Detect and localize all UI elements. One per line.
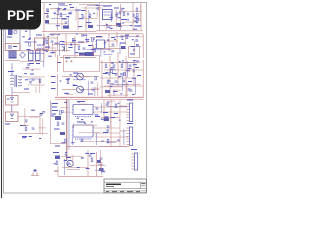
capacitor C52 bbox=[96, 108, 99, 109]
wire bbox=[110, 100, 112, 146]
capacitor C44 bbox=[130, 90, 133, 91]
wire bbox=[38, 127, 46, 129]
label text bbox=[78, 101, 80, 102]
wire bbox=[84, 89, 99, 91]
label text bbox=[52, 103, 58, 104]
svg-text:PDF: PDF bbox=[7, 8, 34, 23]
diode bbox=[107, 102, 109, 104]
label text bbox=[91, 121, 93, 122]
wire bbox=[93, 106, 128, 108]
label text bbox=[53, 152, 59, 153]
wire bbox=[87, 49, 112, 51]
diode bbox=[133, 14, 135, 16]
wire bbox=[67, 169, 80, 171]
label text bbox=[108, 80, 110, 81]
wire bbox=[124, 37, 126, 45]
capacitor C14 bbox=[116, 13, 119, 14]
label text bbox=[31, 110, 35, 111]
label text bbox=[110, 28, 113, 29]
resistor R8 bbox=[25, 127, 27, 131]
label text bbox=[39, 138, 41, 139]
wire bbox=[91, 87, 100, 89]
snubber loop bbox=[129, 47, 140, 58]
transformer T1 core bbox=[9, 51, 17, 59]
Y-capacitor CY1 bbox=[46, 9, 49, 10]
label text bbox=[88, 94, 93, 95]
label text bbox=[32, 70, 34, 71]
wire bbox=[142, 34, 144, 58]
blob cluster bbox=[105, 90, 110, 93]
wire bbox=[65, 34, 67, 44]
wire bbox=[104, 69, 143, 71]
wire bbox=[95, 141, 120, 143]
wire bbox=[97, 5, 99, 11]
node bbox=[136, 22, 138, 24]
resistor bbox=[65, 139, 67, 143]
label text bbox=[58, 8, 60, 9]
wire bbox=[62, 167, 88, 169]
wire bbox=[57, 74, 59, 96]
label text bbox=[72, 40, 76, 41]
blob cluster bbox=[97, 160, 101, 163]
wire bbox=[75, 7, 77, 21]
label text bbox=[22, 136, 27, 137]
wire bbox=[133, 60, 135, 86]
label text bbox=[47, 36, 49, 37]
blob cluster bbox=[104, 118, 109, 121]
wire bbox=[76, 76, 90, 78]
label text bbox=[118, 76, 120, 77]
label text bbox=[93, 39, 95, 40]
label text bbox=[64, 8, 67, 9]
feedback loop bbox=[64, 56, 100, 72]
label text bbox=[36, 35, 42, 36]
wire bbox=[22, 125, 28, 127]
wire bbox=[82, 7, 103, 9]
label text bbox=[51, 34, 54, 35]
IC U2 bbox=[103, 10, 113, 20]
label text bbox=[134, 17, 136, 18]
wire bbox=[120, 130, 126, 132]
wire bbox=[107, 94, 128, 96]
resistor bbox=[92, 38, 94, 42]
wire bbox=[119, 61, 138, 63]
label text bbox=[58, 4, 65, 5]
wire bbox=[119, 42, 121, 54]
label text bbox=[90, 153, 95, 154]
label text bbox=[86, 41, 89, 42]
label text bbox=[25, 79, 28, 80]
label text bbox=[25, 42, 29, 43]
label text bbox=[70, 45, 72, 46]
diode bbox=[108, 73, 110, 75]
wire bbox=[117, 52, 119, 86]
label text bbox=[127, 100, 133, 101]
label text bbox=[70, 74, 72, 75]
label text bbox=[133, 29, 137, 30]
diode bbox=[65, 154, 67, 156]
label text bbox=[96, 36, 102, 37]
diode bbox=[29, 81, 31, 83]
wire bbox=[43, 3, 45, 32]
wire bbox=[51, 17, 66, 19]
label text bbox=[93, 13, 95, 14]
U6 pin row bbox=[75, 116, 91, 118]
label text bbox=[50, 52, 54, 53]
label text bbox=[77, 122, 85, 123]
wire bbox=[57, 36, 59, 50]
diode bbox=[121, 8, 123, 10]
resistor R51 bbox=[57, 122, 59, 126]
label text bbox=[48, 56, 52, 57]
label text bbox=[25, 31, 28, 32]
label text bbox=[73, 73, 78, 74]
wire bbox=[83, 141, 94, 143]
title block bbox=[104, 179, 146, 193]
wire bbox=[129, 67, 131, 72]
label text bbox=[95, 114, 99, 115]
wire bbox=[93, 46, 95, 57]
resistor bbox=[94, 48, 96, 52]
label text bbox=[51, 76, 56, 77]
label text bbox=[121, 19, 127, 20]
label text bbox=[103, 73, 108, 74]
label text bbox=[54, 13, 56, 14]
resistor R22 bbox=[78, 46, 80, 50]
wire bbox=[106, 141, 116, 143]
inductor L1 box bbox=[35, 38, 49, 50]
resistor R21 bbox=[46, 40, 48, 44]
wire bbox=[109, 56, 111, 97]
wire bbox=[60, 107, 68, 109]
wire bbox=[104, 85, 143, 87]
IC U6 bbox=[72, 105, 94, 115]
wire bbox=[110, 109, 112, 127]
diode bbox=[133, 70, 135, 72]
label text bbox=[106, 24, 108, 25]
transistor Q3 bbox=[67, 160, 73, 166]
wire bbox=[44, 49, 70, 51]
blob cluster bbox=[99, 168, 104, 171]
wire bbox=[86, 36, 88, 41]
snubber box 2 bbox=[6, 112, 19, 122]
label text bbox=[26, 49, 30, 50]
wire bbox=[56, 13, 67, 15]
label text bbox=[128, 81, 132, 82]
blob cluster bbox=[79, 53, 86, 56]
label text bbox=[49, 4, 51, 5]
label text bbox=[120, 43, 126, 44]
resistor bbox=[111, 69, 113, 73]
capacitor bbox=[81, 139, 84, 140]
capacitor bbox=[81, 35, 84, 36]
label text bbox=[71, 142, 74, 143]
label text bbox=[111, 117, 115, 118]
wire bbox=[42, 30, 96, 32]
label text bbox=[120, 93, 122, 94]
capacitor C22 bbox=[83, 48, 86, 49]
wire bbox=[35, 87, 37, 93]
wire bbox=[106, 100, 115, 102]
wire bbox=[62, 89, 77, 91]
resistor bbox=[107, 139, 109, 143]
wire bbox=[87, 5, 106, 7]
label text bbox=[24, 73, 27, 74]
label text bbox=[51, 82, 56, 83]
label text bbox=[44, 50, 47, 51]
wire bbox=[103, 24, 129, 26]
connector CN4 bbox=[131, 153, 137, 170]
wire bbox=[58, 42, 60, 56]
resistor R15 bbox=[123, 12, 125, 16]
label text bbox=[68, 13, 71, 14]
wire bbox=[54, 49, 56, 57]
blob cluster bbox=[60, 132, 65, 135]
wire bbox=[120, 105, 126, 107]
wire bbox=[79, 132, 100, 134]
blob cluster bbox=[116, 23, 121, 26]
wire bbox=[100, 103, 102, 113]
wire bbox=[73, 79, 86, 81]
capacitor bbox=[96, 8, 99, 9]
label text bbox=[81, 141, 83, 142]
diode D9 bbox=[127, 13, 129, 15]
label text bbox=[45, 47, 50, 48]
label text bbox=[103, 132, 108, 133]
wire bbox=[61, 155, 82, 157]
wire bbox=[43, 33, 45, 62]
wire bbox=[71, 137, 73, 145]
label text bbox=[57, 62, 61, 63]
label text bbox=[52, 110, 58, 111]
label text bbox=[60, 81, 62, 82]
label text bbox=[42, 111, 45, 112]
label text bbox=[8, 71, 14, 72]
wire bbox=[28, 78, 39, 80]
wire bbox=[59, 5, 67, 7]
resistor bbox=[137, 19, 139, 23]
label text bbox=[103, 112, 108, 113]
capacitor C25 bbox=[121, 36, 124, 37]
transformer T2 secondary bbox=[19, 76, 22, 86]
label text bbox=[126, 70, 129, 71]
label text bbox=[86, 168, 90, 169]
label text bbox=[79, 10, 81, 11]
label text bbox=[81, 110, 85, 111]
label text bbox=[117, 17, 121, 18]
wire bbox=[122, 84, 141, 86]
wire bbox=[135, 78, 137, 95]
label text bbox=[73, 85, 76, 86]
wire bbox=[94, 87, 96, 96]
label text bbox=[64, 93, 67, 94]
wire bbox=[50, 33, 143, 35]
main rail bbox=[55, 96, 144, 98]
label text bbox=[127, 19, 129, 20]
label text bbox=[88, 16, 90, 17]
wire bbox=[87, 150, 89, 176]
wire bbox=[96, 152, 98, 176]
label text bbox=[134, 26, 139, 27]
small part bbox=[31, 170, 39, 176]
label text bbox=[119, 76, 121, 77]
Y-capacitor CY2 bbox=[46, 16, 49, 17]
wire bbox=[73, 123, 75, 128]
resistor R13 bbox=[89, 14, 91, 18]
wire bbox=[65, 44, 67, 52]
wire bbox=[23, 68, 41, 70]
wire bbox=[52, 43, 54, 51]
optocoupler U5 bbox=[77, 86, 84, 93]
label text bbox=[87, 22, 92, 23]
wire bbox=[44, 47, 57, 49]
optocoupler U4 bbox=[77, 73, 84, 80]
wire bbox=[90, 164, 106, 166]
wire bbox=[57, 55, 59, 72]
wire bbox=[97, 25, 112, 27]
resistor R16 bbox=[136, 8, 138, 12]
label text bbox=[135, 67, 139, 68]
label text bbox=[125, 35, 129, 36]
capacitor bbox=[67, 79, 70, 80]
wire bbox=[96, 11, 98, 17]
wire bbox=[78, 18, 98, 20]
wire bbox=[85, 21, 87, 28]
label text bbox=[52, 107, 57, 108]
diode bbox=[25, 120, 27, 122]
wire bbox=[101, 162, 103, 175]
label text bbox=[122, 60, 124, 61]
label text bbox=[76, 33, 78, 34]
label text bbox=[22, 137, 26, 138]
wire bbox=[100, 150, 102, 170]
label text bbox=[61, 142, 64, 143]
capacitor C12 bbox=[82, 16, 85, 17]
wire bbox=[113, 89, 121, 91]
label text bbox=[29, 136, 32, 137]
label text bbox=[30, 74, 34, 75]
PDF badge bbox=[0, 0, 41, 30]
inductor L1 windings bbox=[37, 44, 43, 50]
wire bbox=[52, 43, 80, 45]
wire bbox=[50, 8, 62, 10]
wire bbox=[5, 60, 20, 62]
capacitor C9 bbox=[32, 128, 35, 129]
label text bbox=[52, 116, 55, 117]
label text bbox=[62, 19, 67, 20]
label text bbox=[55, 146, 60, 147]
label text bbox=[52, 52, 55, 53]
wire bbox=[123, 129, 125, 145]
label text bbox=[104, 117, 108, 118]
wire bbox=[39, 78, 41, 93]
wire bbox=[82, 124, 97, 126]
label text bbox=[81, 14, 83, 15]
wire bbox=[108, 34, 110, 52]
wire bbox=[74, 42, 76, 54]
label text bbox=[36, 63, 40, 64]
wire bbox=[125, 56, 127, 97]
label text bbox=[54, 171, 58, 172]
label text bbox=[22, 36, 25, 37]
diode D15 bbox=[123, 80, 125, 82]
snubber box 1 bbox=[6, 96, 19, 106]
wire bbox=[21, 76, 45, 78]
label text bbox=[56, 25, 60, 26]
diode D12 bbox=[133, 49, 135, 51]
wire bbox=[85, 6, 87, 31]
label text bbox=[104, 6, 106, 7]
wire bbox=[133, 41, 135, 54]
label text bbox=[132, 39, 134, 40]
label text bbox=[26, 67, 29, 68]
label text bbox=[101, 119, 105, 120]
wire bbox=[11, 87, 13, 97]
wire bbox=[120, 35, 129, 37]
label text bbox=[69, 47, 73, 48]
label text bbox=[118, 26, 122, 27]
wire bbox=[93, 132, 120, 134]
wire bbox=[105, 40, 118, 42]
capacitor bbox=[111, 51, 114, 52]
label text bbox=[75, 10, 79, 11]
wire bbox=[88, 10, 90, 25]
capacitor CX1 bbox=[5, 44, 20, 51]
label text bbox=[107, 40, 109, 41]
wire bbox=[60, 56, 96, 58]
label text bbox=[108, 5, 112, 6]
label text bbox=[110, 86, 112, 87]
blob cluster bbox=[45, 20, 49, 24]
wire bbox=[87, 81, 89, 96]
diode bbox=[119, 12, 121, 14]
label text bbox=[60, 44, 64, 45]
wire bbox=[4, 30, 6, 51]
wire bbox=[24, 108, 26, 125]
wire bbox=[61, 16, 63, 29]
label text bbox=[130, 54, 135, 55]
resistor bbox=[29, 42, 31, 46]
capacitor bbox=[115, 15, 118, 16]
wire bbox=[67, 146, 129, 148]
wire bbox=[18, 116, 40, 118]
label text bbox=[66, 157, 71, 158]
label text bbox=[117, 140, 120, 141]
label text bbox=[13, 46, 17, 47]
wire bbox=[99, 3, 101, 31]
wire bbox=[50, 143, 67, 145]
label text bbox=[103, 6, 110, 7]
wire bbox=[100, 47, 126, 49]
label text bbox=[77, 118, 79, 119]
label text bbox=[114, 8, 119, 9]
label text bbox=[111, 84, 114, 85]
label text bbox=[137, 26, 140, 27]
capacitor C62 bbox=[100, 158, 103, 159]
wire bbox=[12, 92, 30, 94]
wire bbox=[58, 175, 103, 177]
wire bbox=[50, 100, 52, 144]
diode D5 bbox=[11, 98, 14, 103]
label text bbox=[54, 163, 56, 164]
IC U3 bbox=[95, 40, 105, 49]
wire bbox=[124, 21, 136, 23]
wire bbox=[49, 34, 60, 36]
wire bbox=[126, 82, 128, 96]
label text bbox=[46, 51, 48, 52]
wire bbox=[43, 34, 45, 58]
wire bbox=[62, 42, 87, 44]
